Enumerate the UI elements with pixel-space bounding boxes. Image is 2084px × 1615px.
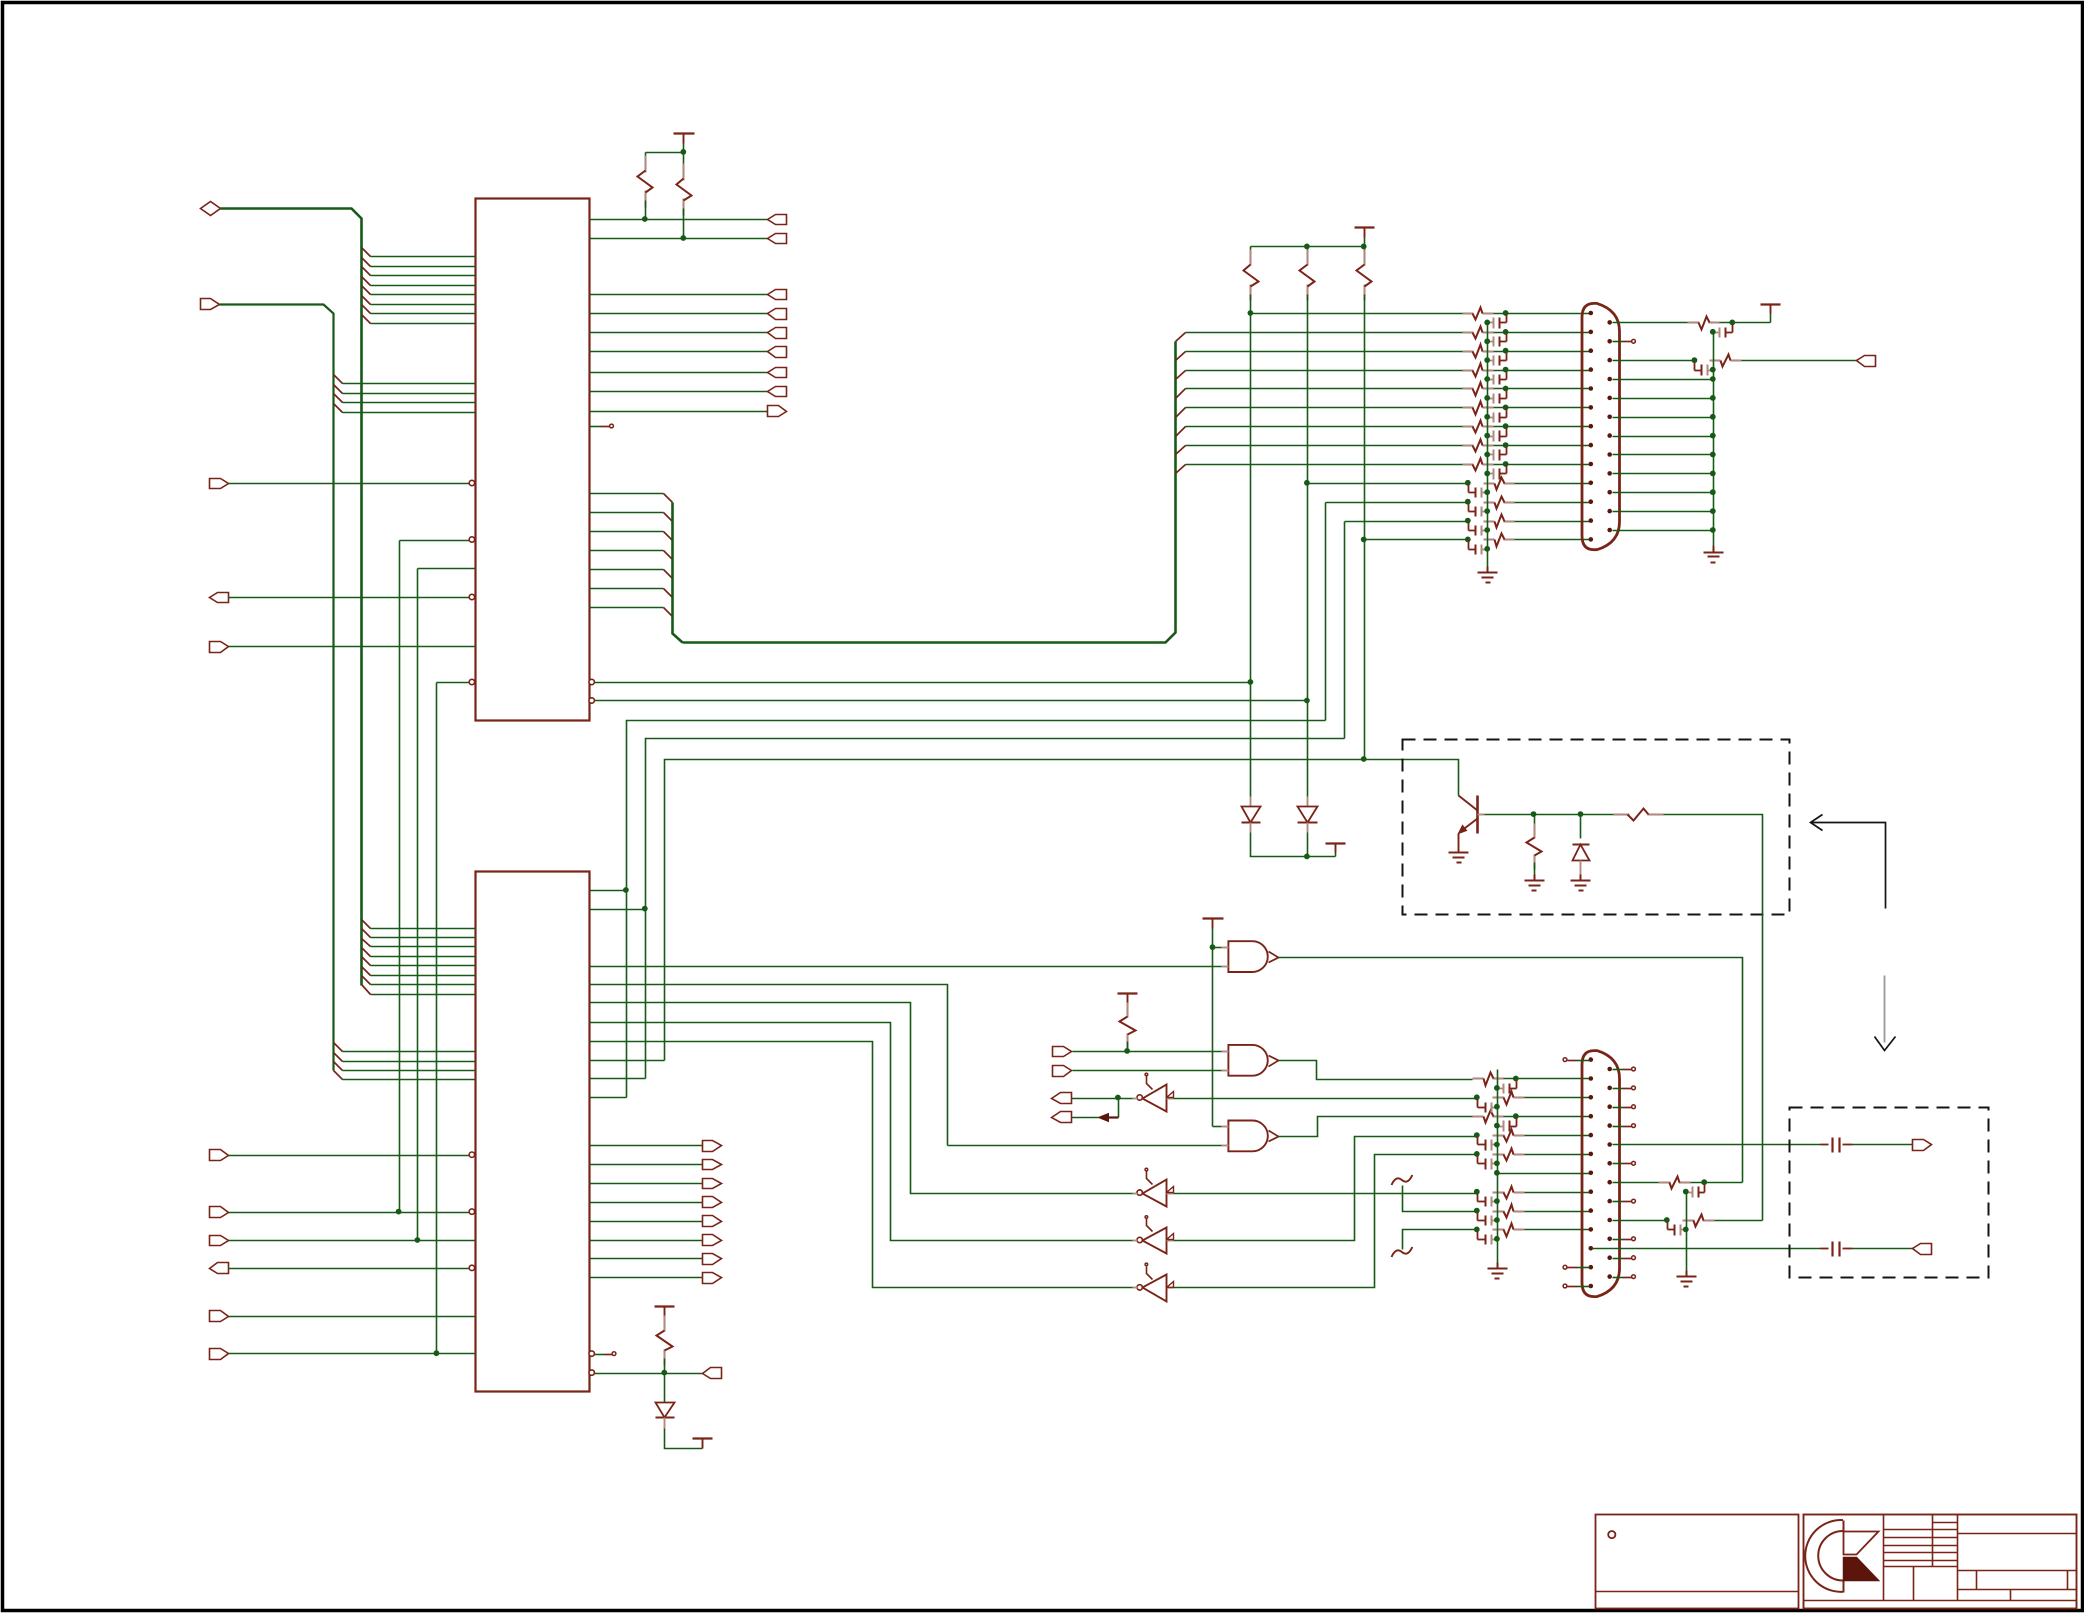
junction RN1-6 — [1503, 405, 1509, 411]
dashed box output — [1790, 1108, 1989, 1278]
pin X2 lp1 nc — [1563, 1058, 1589, 1062]
wire X2 rp9 — [1613, 1220, 1668, 1222]
wire R2 top — [683, 153, 685, 171]
capacitor CN1-11 — [1469, 504, 1491, 517]
tag output CNT — [703, 1368, 722, 1379]
wire RN1-6 out — [1494, 407, 1590, 409]
wire R7 out — [1742, 360, 1857, 362]
ground Q1 — [1449, 847, 1469, 863]
connector X1 right pins — [1607, 320, 1612, 532]
wire D4 bottom — [665, 1429, 703, 1449]
junction RN2-6 — [1474, 1151, 1480, 1157]
tag output O6 — [768, 368, 787, 378]
title block grid — [1804, 1515, 2077, 1609]
wire rail4 — [1686, 1193, 1688, 1271]
tag output PB2 — [703, 1179, 722, 1189]
junction RN1-3 — [1503, 348, 1509, 354]
wire VCC1 stem — [683, 144, 685, 153]
bus ripper C5 — [362, 957, 371, 966]
junction rp8 — [1710, 452, 1716, 458]
wire IRQ — [229, 597, 470, 599]
pin U2 nc stub — [595, 1352, 616, 1356]
wire VCC2 stem — [1364, 238, 1366, 247]
junction RN1-7 — [1503, 423, 1509, 429]
tag input PA0 — [210, 1150, 229, 1161]
capacitor CN1-13 — [1469, 541, 1491, 555]
capacitor CN2-10 — [1478, 1231, 1500, 1245]
IC U2 body — [476, 872, 590, 1392]
resistor RN1-7 — [1463, 421, 1494, 433]
capacitor CN1-9 — [1484, 466, 1506, 480]
wire stub T1 — [1392, 1175, 1478, 1212]
resistor RN1-13 — [1484, 534, 1515, 547]
capacitor CN2-8 — [1478, 1194, 1500, 1207]
wire U3C out — [1279, 1117, 1473, 1137]
wire RN1-2 out — [1494, 332, 1590, 334]
tag output PB1 — [768, 234, 787, 244]
capacitor C4 — [1668, 1222, 1689, 1236]
tag input CB1 — [768, 406, 787, 417]
bus ripper A3 — [362, 267, 371, 276]
bus ripper C4 — [362, 948, 371, 957]
wire bus tap C7 to U2 — [371, 984, 476, 986]
wire U1 out4 — [590, 332, 768, 334]
wire RN2-9 out — [1525, 1211, 1590, 1213]
wire U2 out6 — [590, 1258, 703, 1260]
tag input PA1 — [210, 1207, 229, 1218]
tag output PB5 — [703, 1235, 722, 1246]
junction L2 U2 — [642, 906, 648, 912]
tag input 2 — [201, 299, 220, 310]
inverter U4D — [1133, 1263, 1174, 1301]
capacitor CN2-5 — [1478, 1137, 1500, 1151]
resistor RN1-1 — [1463, 308, 1494, 320]
ground rail2 — [1704, 546, 1724, 563]
pin X2 rp1 nc — [1613, 1067, 1636, 1071]
annotation arrow 2 — [1875, 976, 1896, 1051]
wire RN1-13 out — [1515, 539, 1590, 541]
wire R4 top — [1307, 247, 1309, 257]
wire bus tap C3 to U2 — [371, 946, 476, 948]
resistor R10 — [1120, 1003, 1136, 1049]
wire U3C in2 — [948, 1145, 1222, 1147]
junction L1 U2 — [623, 887, 629, 893]
gate U3B — [1222, 1045, 1279, 1076]
annotation arrow 1 — [1811, 815, 1886, 909]
wire R13 bot — [664, 1359, 666, 1374]
capacitor C5 — [1821, 1138, 1853, 1153]
wire X1 rp11 — [1613, 511, 1714, 513]
ground D3 — [1571, 875, 1591, 891]
wire RN1-9 out — [1494, 464, 1590, 466]
tag output PA3 — [210, 1263, 229, 1274]
pin X2 rp3 nc — [1613, 1105, 1636, 1109]
connector X2 left pins — [1589, 1057, 1594, 1288]
capacitor C2 — [1695, 362, 1716, 376]
resistor R11 — [1659, 1177, 1691, 1189]
inverter U4A — [1133, 1073, 1174, 1111]
junction RN2-5 — [1474, 1132, 1480, 1138]
junction rp9 — [1664, 1217, 1670, 1223]
wire X1 row2 — [1186, 332, 1463, 334]
wire U4D out — [590, 1042, 1133, 1288]
gate U3C — [1222, 1121, 1279, 1152]
node BUS1 diamond tag — [201, 202, 221, 216]
resistor R8 — [1614, 809, 1664, 821]
wire PA1 — [229, 1212, 470, 1214]
wire U2 out0 — [590, 1145, 703, 1147]
wire net N3 corner — [437, 682, 470, 684]
wire U1 P0 — [590, 493, 664, 495]
wire RN1-11 out — [1515, 502, 1590, 504]
wire U2 pin890 — [590, 890, 627, 892]
pin X2 lp13 nc — [1563, 1284, 1589, 1288]
wire RN1-5 out — [1494, 388, 1590, 390]
resistor RN2-10 — [1493, 1224, 1525, 1237]
wire bus tap A3 to U1 — [371, 275, 476, 277]
tag output IRQ — [210, 593, 229, 603]
bus ripper D3 — [334, 1062, 343, 1071]
wire U1 out3 — [590, 313, 768, 315]
resistor RN1-10 — [1484, 478, 1515, 490]
wire R9 top — [1534, 815, 1536, 831]
pin bubble U1 N3 — [469, 679, 474, 684]
ground R9 — [1525, 875, 1545, 891]
wire X1 rp9 — [1613, 473, 1714, 475]
wire net N1 vertical — [399, 541, 401, 1213]
wire X1 row12 — [1345, 521, 1469, 523]
wire bus tap C1 to U2 — [371, 928, 476, 930]
junction R2 — [680, 235, 686, 241]
wire C6 out — [1853, 1248, 1913, 1250]
junction PA1 — [396, 1209, 402, 1215]
pin bubble U2 c — [469, 1265, 474, 1270]
wire X1 row5 — [1186, 388, 1463, 390]
wire RESET — [229, 483, 470, 485]
tag output PB0 — [768, 215, 787, 225]
resistor RN2-8 — [1493, 1187, 1525, 1199]
junction R6 — [1729, 320, 1735, 326]
pin bubble U2 d — [589, 1370, 594, 1375]
bus ripper A2 — [362, 258, 371, 267]
bus ripper Q0 — [1176, 333, 1186, 342]
diode D1 — [1242, 797, 1261, 833]
wire U1 PB1 — [590, 238, 768, 240]
wire U1 out6 — [590, 372, 768, 374]
pin bubble U1 CS — [469, 537, 474, 542]
annotation arrow 3 — [1099, 1114, 1119, 1122]
wire L1 vert — [1325, 503, 1327, 721]
wire X1 rp10 — [1613, 492, 1714, 494]
wire PA2 — [229, 1240, 476, 1242]
junction R11 — [1701, 1179, 1707, 1185]
wire R9 bot — [1534, 863, 1536, 881]
wire R4 down — [1307, 295, 1309, 484]
bus right vertical — [673, 503, 683, 643]
wire U4A in — [1174, 1098, 1478, 1100]
capacitor CN2-3 — [1478, 1099, 1500, 1113]
junction RN1-12 — [1465, 518, 1471, 524]
wire R3 top — [1250, 247, 1252, 257]
wire U1 P6 — [590, 607, 664, 609]
resistor RN1-3 — [1463, 345, 1494, 358]
wire RN1-7 out — [1494, 426, 1590, 428]
wire RW — [229, 646, 476, 648]
tag output PB3 — [703, 1197, 722, 1208]
pin U1 nc stub — [590, 424, 614, 428]
wire net N1 corner — [400, 540, 470, 542]
wire RN2-2 out — [1504, 1078, 1590, 1080]
junction base R — [1531, 811, 1537, 817]
wire X1 row9 — [1186, 464, 1463, 466]
wire R2 bottom — [683, 209, 685, 239]
junction rp9 — [1710, 471, 1716, 477]
tag output PB6 — [703, 1254, 722, 1265]
wire L1 — [627, 721, 1326, 1098]
junction rp5 — [1710, 395, 1716, 401]
wire rail2 — [1713, 333, 1715, 546]
wire U3A out — [1279, 958, 1743, 1183]
bus ripper D2 — [334, 1053, 343, 1062]
pin X2 lp12 nc — [1563, 1265, 1589, 1269]
wire X2 rp5 — [1613, 1144, 1821, 1146]
junction L3 — [1361, 756, 1367, 762]
resistor R4 — [1300, 250, 1315, 301]
wire RN2-6 out — [1525, 1154, 1590, 1156]
bus ripper A5 — [362, 286, 371, 295]
wire U2 out2 — [590, 1183, 703, 1185]
wire U1 P5 — [590, 588, 664, 590]
power VCC4 — [1326, 844, 1346, 857]
bus ripper P0 — [664, 494, 673, 503]
wire X1 rp8 — [1613, 454, 1714, 456]
junction row1 — [1248, 310, 1254, 316]
wire C5 out — [1853, 1144, 1913, 1146]
wire U4C in — [1174, 1137, 1478, 1241]
capacitor C6 — [1821, 1242, 1853, 1257]
resistor R3 — [1244, 250, 1259, 301]
resistor RN1-11 — [1484, 497, 1515, 509]
wire bus tap D2 to U2 — [343, 1061, 476, 1063]
wire U1 PB0 — [590, 219, 768, 221]
capacitor CN1-6 — [1484, 409, 1506, 423]
diode D4 — [656, 1374, 675, 1429]
ground rail3 — [1488, 1263, 1508, 1279]
wire R5 down — [1364, 295, 1366, 541]
wire RN2-8 out — [1525, 1192, 1590, 1194]
wire RN2-10 out — [1525, 1229, 1590, 1231]
wire gate net vert — [1212, 948, 1214, 1127]
wire R4 vert — [1307, 484, 1309, 797]
bus ripper D4 — [334, 1071, 343, 1080]
capacitor CN1-3 — [1484, 353, 1506, 366]
bus ripper Q3 — [1176, 389, 1186, 399]
resistor RN2-9 — [1493, 1205, 1525, 1218]
pin X2 rp8 nc — [1613, 1199, 1636, 1203]
bus ripper B2 — [334, 385, 343, 394]
wire R10 top — [1127, 1003, 1129, 1010]
wire pullup bus — [1251, 246, 1365, 248]
wire U3C in2 vert — [590, 985, 948, 1146]
tag input RW — [210, 642, 229, 653]
tag output PB7 — [703, 1273, 722, 1284]
resistor RN1-4 — [1463, 364, 1494, 377]
capacitor CN2-6 — [1478, 1156, 1500, 1170]
transistor Q1 — [1459, 796, 1485, 834]
inverter U4C — [1133, 1216, 1174, 1254]
tag output O3 — [768, 309, 787, 320]
tag input STROBE — [1053, 1047, 1072, 1057]
wire U2 d — [595, 1373, 703, 1375]
wire RN2-5 out — [1525, 1135, 1590, 1137]
junction pullup R10 — [1124, 1048, 1130, 1054]
wire U1 outA — [595, 682, 1251, 684]
junction row10 — [1304, 480, 1310, 486]
Commodore logo — [1805, 1520, 1878, 1592]
bus ripper Q4 — [1176, 408, 1186, 418]
wire U1 P1 — [590, 512, 664, 514]
wire X2 lp11 through — [1593, 1248, 1821, 1250]
junction pu3 — [1361, 244, 1367, 250]
pin bubble U1 out A — [589, 679, 594, 684]
diode D3 zener — [1573, 815, 1590, 881]
tag input RESET — [210, 479, 229, 489]
wire bus tap C4 to U2 — [371, 956, 476, 958]
tag input PA4 — [210, 1311, 229, 1322]
wire pullup top — [646, 152, 684, 154]
wire RN1-8 out — [1494, 445, 1590, 447]
junction RN1-13 — [1465, 537, 1471, 543]
bus ripper C2 — [362, 929, 371, 938]
wire PA0 — [229, 1155, 470, 1157]
wire U3B out — [1279, 1061, 1473, 1080]
wire bus tap B3 to U1 — [343, 402, 476, 404]
pin X2 rp12 nc — [1613, 1275, 1636, 1279]
tag output O5 — [768, 347, 787, 358]
resistor RN2-6 — [1493, 1149, 1525, 1161]
pin X2 rp4 nc — [1613, 1124, 1636, 1128]
tag output O4 — [768, 328, 787, 339]
connector X2 outline — [1582, 1051, 1620, 1297]
junction row13 — [1361, 537, 1367, 543]
junction R1 — [642, 216, 648, 222]
wire R1 bottom — [645, 201, 647, 220]
bus ripper C1 — [362, 920, 371, 929]
bus ripper C8 — [362, 985, 371, 995]
wire U3B in2 — [1073, 1070, 1222, 1072]
wire bus tap A1 to U1 — [371, 256, 476, 258]
wire RN1-12 out — [1515, 521, 1590, 523]
wire X1 row8 — [1186, 445, 1463, 447]
notes box — [1596, 1515, 1799, 1609]
wire rail1 — [1487, 323, 1489, 567]
junction rp10 — [1710, 489, 1716, 495]
power VCC8 — [693, 1439, 713, 1449]
bus wire from diamond — [221, 209, 362, 986]
wire RN1-10 out — [1515, 483, 1590, 485]
dashed box servo — [1403, 740, 1790, 915]
resistor RN2-5 — [1493, 1130, 1525, 1142]
bus ripper C3 — [362, 939, 371, 947]
junction outB — [1304, 698, 1310, 704]
wire X1 row6 — [1186, 407, 1463, 409]
bus ripper A7 — [362, 305, 371, 314]
capacitor CN1-10 — [1469, 485, 1491, 498]
wire net N2 — [418, 568, 476, 570]
wire bus tap A2 to U1 — [371, 266, 476, 268]
bus ripper A6 — [362, 296, 371, 305]
wire rail3 — [1497, 1070, 1499, 1263]
diode D2 — [1298, 797, 1318, 833]
junction pu2 — [1304, 244, 1310, 250]
wire U2 pin1096 — [590, 1097, 627, 1099]
junction RN1-10 — [1465, 480, 1471, 486]
junction PA5 — [434, 1350, 440, 1356]
bus ripper P5 — [664, 589, 673, 598]
wire bus tap A8 to U1 — [371, 323, 476, 325]
wire U3A in1 — [1213, 947, 1222, 949]
wire PA5 — [229, 1353, 476, 1355]
resistor R7 — [1710, 355, 1742, 367]
capacitor CN2-9 — [1478, 1213, 1500, 1226]
resistor R9 — [1527, 824, 1542, 870]
wire bus tap C8 to U2 — [371, 994, 476, 996]
bus ripper D1 — [334, 1043, 343, 1052]
bus ripper C7 — [362, 976, 371, 985]
wire U2 pin1078 — [590, 1078, 646, 1080]
bus ripper B1 — [334, 375, 343, 384]
capacitor CN1-12 — [1469, 523, 1491, 536]
tag output O2 — [768, 290, 787, 300]
junction rp4 — [1710, 376, 1716, 382]
resistor RN1-5 — [1463, 383, 1494, 396]
power VCC6 — [1118, 994, 1138, 1003]
wire L2 vert — [1344, 522, 1346, 739]
wire R11 out — [1691, 1182, 1743, 1184]
wire U4A out — [1072, 1098, 1133, 1100]
notes box circle — [1608, 1531, 1615, 1538]
wire R5 top — [1364, 247, 1366, 257]
capacitor CN1-1 — [1484, 315, 1506, 329]
junction PA2 — [415, 1237, 421, 1243]
pin X2 rp6 nc — [1613, 1161, 1636, 1165]
power VCC3 — [1761, 305, 1781, 314]
resistor R1 — [638, 156, 653, 208]
tag output O7 — [768, 387, 787, 397]
connector X1 left pins — [1589, 311, 1594, 542]
junction RN2-4 — [1513, 1113, 1519, 1119]
bus ripper Q6 — [1176, 446, 1186, 455]
resistor RN1-12 — [1484, 515, 1515, 528]
junction outA — [1248, 679, 1254, 685]
wire bus tap D4 to U2 — [343, 1079, 476, 1081]
resistor RN2-2 — [1473, 1073, 1504, 1086]
ground rail1 — [1478, 567, 1498, 583]
bus ripper Q2 — [1176, 371, 1186, 380]
wire bus tap C6 to U2 — [371, 975, 476, 977]
pin bubble U1 out B — [589, 698, 594, 703]
tag input AUTO — [1053, 1066, 1072, 1077]
bus ripper Q7 — [1176, 465, 1186, 474]
capacitor CN1-2 — [1484, 334, 1506, 347]
tag output PB0 — [703, 1141, 722, 1152]
wire U2 out1 — [590, 1164, 703, 1166]
bus ripper A8 — [362, 315, 371, 324]
tag input PA5 — [210, 1349, 229, 1360]
pin X2 rp2 nc — [1613, 1086, 1636, 1090]
wire R3 down — [1250, 295, 1252, 314]
wire U2 pin908 — [590, 909, 646, 911]
